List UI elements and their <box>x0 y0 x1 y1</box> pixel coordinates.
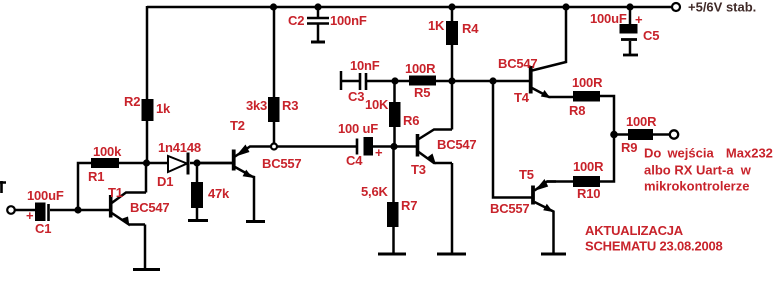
svg-text:1n4148: 1n4148 <box>158 140 201 155</box>
svg-text:R9: R9 <box>621 140 637 155</box>
wire node H down to R10 <box>600 135 614 182</box>
node rail-R4 <box>448 3 455 10</box>
wire node C to C4 <box>277 145 356 148</box>
ground under R7 <box>378 253 406 256</box>
svg-text:SCHEMATU 23.08.2008: SCHEMATU 23.08.2008 <box>585 239 723 254</box>
wire D1 cathode to node B <box>190 162 232 165</box>
ground under T2 <box>246 220 265 223</box>
svg-text:R6: R6 <box>403 113 419 128</box>
label R8 <box>569 103 585 118</box>
wire T3 emitter down to ground <box>451 163 454 253</box>
wire T1 emitter down <box>144 225 147 270</box>
label note line1b <box>644 163 752 178</box>
label T3 <box>411 162 426 177</box>
wire node A to D1 anode <box>146 162 167 165</box>
svg-text:mikrokontrolerze: mikrokontrolerze <box>644 179 749 194</box>
node G junction to T4/T5 <box>489 77 496 84</box>
label T1 type BC547 <box>130 200 169 215</box>
svg-text:10K: 10K <box>365 97 389 112</box>
wire C1 to T1 base <box>50 209 109 212</box>
svg-text:R2: R2 <box>124 94 140 109</box>
svg-text:R3: R3 <box>282 98 298 113</box>
wire top supply rail <box>147 6 672 9</box>
svg-text:+5/6V stab.: +5/6V stab. <box>688 0 756 15</box>
svg-text:BC547: BC547 <box>498 56 537 71</box>
node C open junction R3/T2/C4 <box>271 144 277 150</box>
label R3 <box>282 98 298 113</box>
wire R3 bottom to node C <box>273 122 276 144</box>
label supply +5/6V stab. <box>688 0 756 15</box>
label C2 <box>288 13 304 28</box>
svg-text:R8: R8 <box>569 103 585 118</box>
wire 47k to ground <box>196 208 199 220</box>
label C4 value 100 uF <box>338 121 378 136</box>
label T2 type BC557 <box>262 156 301 171</box>
ground under 47k <box>188 219 208 222</box>
svg-text:C2: C2 <box>288 13 304 28</box>
capacitor C4 <box>357 137 391 156</box>
svg-text:+: + <box>375 145 383 160</box>
svg-text:albo RX Uart-a w: albo RX Uart-a w <box>644 163 752 178</box>
svg-text:100R: 100R <box>626 114 657 129</box>
svg-text:R1: R1 <box>88 169 104 184</box>
wire T3 collector up to node F <box>451 81 454 130</box>
capacitor C1 <box>35 203 49 222</box>
label T4 <box>514 90 530 105</box>
wire input to C1 <box>15 209 35 212</box>
wire left vertical from rail to R2 <box>146 6 149 99</box>
label C3 value 10nF <box>350 58 380 73</box>
label T2 <box>230 118 245 133</box>
resistor R8 <box>573 91 600 102</box>
svg-text:47k: 47k <box>208 186 230 201</box>
node rail-C5 <box>626 3 633 10</box>
node rail-T4 <box>562 3 569 10</box>
label C4 <box>346 153 363 168</box>
ground under T1 <box>133 268 160 271</box>
label C1 <box>35 221 51 236</box>
wire R10 left to T5 emitter <box>547 180 573 183</box>
svg-text:100nF: 100nF <box>330 13 367 28</box>
svg-text:AKTUALIZACJA: AKTUALIZACJA <box>585 223 684 238</box>
ground under C2 <box>311 41 325 44</box>
svg-text:+: + <box>635 12 643 27</box>
label C4 plus <box>375 145 383 160</box>
resistor R4 <box>446 21 458 45</box>
svg-text:T3: T3 <box>411 162 426 177</box>
wire T2 base from node B <box>197 162 232 165</box>
label R8 value 100R <box>572 75 603 90</box>
svg-text:C4: C4 <box>346 153 363 168</box>
resistor R3 <box>268 97 280 122</box>
svg-text:1K: 1K <box>428 18 445 33</box>
svg-text:Do wejścia Max232: Do wejścia Max232 <box>644 146 773 161</box>
node input junction R1/C1/T1 <box>74 206 81 213</box>
wire R3 top connection <box>273 7 276 97</box>
svg-text:+: + <box>26 208 34 223</box>
svg-text:T1: T1 <box>108 185 123 200</box>
wire R2 bottom to node A <box>146 121 149 163</box>
wire node G down and right to T5 base <box>493 81 532 198</box>
label R3 value 3k3 <box>246 98 267 113</box>
label R2 <box>124 94 140 109</box>
wire R6 bottom to node E <box>393 127 396 146</box>
diode D1 <box>168 153 188 175</box>
label T1 <box>108 185 123 200</box>
label C5 <box>643 28 659 43</box>
wire R1 right to node A <box>119 162 146 165</box>
label note Do wejscia Max232 <box>644 146 773 161</box>
label R5 <box>414 85 430 100</box>
transistor T3 <box>394 130 452 165</box>
svg-text:100 uF: 100 uF <box>338 121 378 136</box>
wire node G to T4 base <box>493 80 529 83</box>
label T5 <box>519 167 534 182</box>
svg-text:100uF: 100uF <box>27 188 64 203</box>
wire node E down to R7 <box>392 146 395 202</box>
label note AKTUALIZACJA <box>585 223 684 238</box>
svg-text:5,6K: 5,6K <box>361 184 388 199</box>
svg-text:100R: 100R <box>573 159 604 174</box>
resistor R9 <box>628 129 653 140</box>
svg-text:R7: R7 <box>401 198 417 213</box>
resistor R5 <box>409 76 436 86</box>
resistor 47k <box>191 182 203 208</box>
svg-text:1k: 1k <box>156 101 171 116</box>
label C5 value 100uF <box>590 11 627 26</box>
capacitor C2 <box>307 7 329 41</box>
wire R7 to ground <box>392 227 395 253</box>
label R9 value 100R <box>626 114 657 129</box>
node F junction R4/R5/T3 <box>448 77 455 84</box>
node E junction C4/R6/R7/T3 <box>390 143 397 150</box>
svg-text:T2: T2 <box>230 118 245 133</box>
ground under T3 <box>437 253 466 256</box>
svg-text:BC557: BC557 <box>262 156 301 171</box>
svg-text:C5: C5 <box>643 28 659 43</box>
resistor R10 <box>573 176 600 187</box>
label C1 plus <box>26 208 34 223</box>
svg-text:T4: T4 <box>514 90 530 105</box>
label R6 <box>403 113 419 128</box>
label R1 value 100k <box>93 144 122 159</box>
capacitor C3 <box>341 71 393 90</box>
label C5 plus <box>635 12 643 27</box>
label note SCHEMATU date <box>585 239 723 254</box>
input terminal <box>7 206 15 214</box>
supply terminal <box>672 3 680 11</box>
svg-text:100uF: 100uF <box>590 11 627 26</box>
label T3 type BC547 <box>437 137 476 152</box>
wire R1 left elbow down to input node <box>78 163 91 210</box>
label C2 value 100nF <box>330 13 367 28</box>
svg-text:BC557: BC557 <box>490 201 529 216</box>
label D1 <box>157 174 173 189</box>
label 47k <box>208 186 230 201</box>
svg-text:BC547: BC547 <box>130 200 169 215</box>
resistor R6 <box>389 102 401 127</box>
svg-text:3k3: 3k3 <box>246 98 267 113</box>
transistor T2 <box>234 145 271 221</box>
node rail-C2 <box>314 3 321 10</box>
label note line2 <box>644 179 749 194</box>
node D junction C3/R5/R6 <box>391 77 398 84</box>
node A junction R1/R2/D1/T1-collector <box>143 159 150 166</box>
input edge mark <box>0 181 6 193</box>
svg-text:R10: R10 <box>577 186 600 201</box>
node rail-R3 <box>270 3 277 10</box>
svg-text:C1: C1 <box>35 221 51 236</box>
label R9 <box>621 140 637 155</box>
transistor T5 <box>533 179 556 254</box>
wire R9 leads <box>614 133 670 136</box>
label R10 value 100R <box>573 159 604 174</box>
svg-text:R5: R5 <box>414 85 430 100</box>
ground under T5 <box>541 253 566 256</box>
wire R4 leads <box>451 7 454 81</box>
label R7 <box>401 198 417 213</box>
label R10 <box>577 186 600 201</box>
wire R6 top lead <box>393 81 396 102</box>
label R4 value 1K <box>428 18 445 33</box>
wire node B down to 47k <box>196 163 199 182</box>
transistor T1 <box>111 193 146 227</box>
label R2 value 1k <box>156 101 171 116</box>
transistor T4 <box>531 7 573 98</box>
label R5 value 100R <box>405 61 436 76</box>
capacitor C5 <box>620 7 639 55</box>
svg-text:BC547: BC547 <box>437 137 476 152</box>
svg-text:10nF: 10nF <box>350 58 380 73</box>
svg-text:D1: D1 <box>157 174 173 189</box>
label C3 <box>348 89 364 104</box>
svg-text:100R: 100R <box>572 75 603 90</box>
resistor R1 <box>91 158 119 168</box>
resistor R7 <box>387 202 399 227</box>
svg-text:R4: R4 <box>462 21 479 36</box>
label D1 value 1n4148 <box>158 140 201 155</box>
node B junction D1/47k/T2-base <box>193 159 200 166</box>
svg-text:T5: T5 <box>519 167 534 182</box>
label C1 value 100uF <box>27 188 64 203</box>
node H junction R8/R9/R10 <box>610 131 618 139</box>
wire T1 collector up to node A <box>145 163 148 193</box>
svg-text:100R: 100R <box>405 61 436 76</box>
label T4 type BC547 <box>498 56 537 71</box>
label R4 <box>462 21 479 36</box>
resistor R2 <box>142 99 154 121</box>
output terminal <box>670 130 678 138</box>
label R6 value 10K <box>365 97 389 112</box>
label R7 value 5,6K <box>361 184 388 199</box>
svg-text:100k: 100k <box>93 144 122 159</box>
wire R5 leads <box>395 80 493 83</box>
label T5 type BC557 <box>490 201 529 216</box>
svg-text:C3: C3 <box>348 89 364 104</box>
label R1 <box>88 169 104 184</box>
wire R8 to node H <box>600 96 614 134</box>
